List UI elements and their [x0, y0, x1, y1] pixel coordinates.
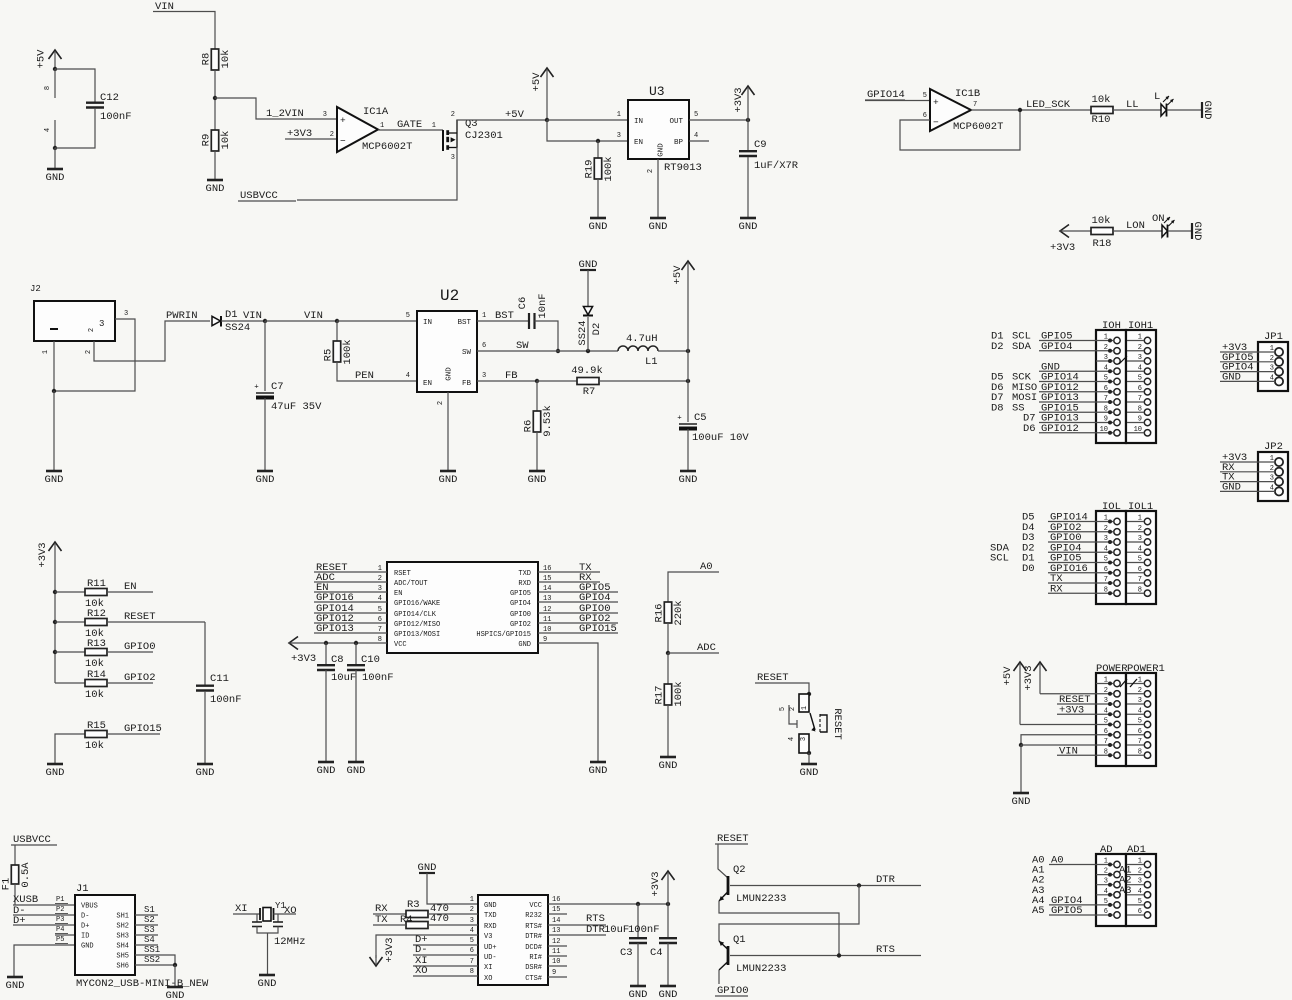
node USBVCC label	[238, 190, 296, 202]
svg-text:3: 3	[451, 154, 455, 162]
svg-text:1: 1	[1138, 515, 1142, 523]
svg-text:ON: ON	[1152, 213, 1165, 225]
node PWRIN label	[166, 310, 198, 322]
svg-text:5: 5	[1104, 556, 1108, 564]
svg-text:USBVCC: USBVCC	[13, 834, 51, 846]
svg-text:R7: R7	[583, 386, 596, 398]
svg-text:C6: C6	[517, 297, 529, 310]
svg-text:6: 6	[1104, 385, 1108, 393]
capacitor C9	[739, 120, 799, 172]
resistor R13	[85, 638, 107, 670]
node R12 junction	[53, 620, 57, 624]
svg-text:+3V3: +3V3	[291, 653, 316, 665]
svg-text:C4: C4	[650, 947, 663, 959]
svg-text:RESET: RESET	[831, 708, 843, 740]
svg-text:SH2: SH2	[116, 923, 129, 931]
svg-text:8: 8	[470, 968, 474, 976]
node RESET label	[124, 611, 156, 623]
svg-text:MCP6002T: MCP6002T	[362, 141, 412, 153]
node C10 junction	[354, 641, 358, 645]
svg-text:SH1: SH1	[116, 913, 129, 921]
node SW junction	[556, 349, 560, 353]
svg-text:1: 1	[482, 312, 486, 320]
svg-text:1: 1	[1138, 334, 1142, 342]
node XI label	[235, 903, 248, 915]
wire C4 to ground	[667, 943, 669, 986]
svg-text:5: 5	[406, 312, 410, 320]
svg-text:GPIO14: GPIO14	[867, 89, 905, 101]
JP2 pin 4	[1270, 484, 1283, 495]
node LL label	[1126, 99, 1139, 111]
svg-text:1: 1	[801, 706, 809, 710]
header AD/AD1	[1096, 844, 1156, 926]
wire J1 P4 stub	[55, 926, 75, 935]
svg-text:1uF/X7R: 1uF/X7R	[754, 160, 799, 172]
svg-text:GND: GND	[1222, 481, 1241, 493]
svg-text:SS2: SS2	[144, 955, 160, 965]
wire U2 BST to C6	[477, 312, 529, 321]
ground	[589, 762, 608, 777]
wire to ground	[53, 391, 55, 471]
wire U4 DTR to DTR	[548, 927, 606, 935]
svg-text:D8: D8	[991, 402, 1004, 414]
ground	[418, 862, 437, 874]
svg-text:GND: GND	[46, 172, 65, 184]
svg-text:10k: 10k	[1092, 215, 1111, 227]
node +5V junction	[686, 349, 690, 353]
node GPIO15 label	[124, 723, 162, 735]
node divider junction	[213, 96, 217, 100]
svg-text:8: 8	[1138, 405, 1142, 413]
svg-text:100nF: 100nF	[628, 924, 660, 936]
resistor R16	[654, 600, 686, 625]
svg-text:GND: GND	[81, 943, 94, 951]
svg-text:C12: C12	[100, 92, 119, 104]
wire module pin 14 to GPIO5	[538, 591, 618, 593]
node switch bottom junction	[807, 751, 811, 755]
svg-text:4: 4	[1138, 888, 1142, 896]
wire Q2 emitter to RTS net	[719, 901, 839, 955]
ground	[206, 180, 225, 195]
node +3V3 label	[1059, 704, 1084, 716]
svg-text:GND: GND	[206, 183, 225, 195]
wire +5V to C12	[55, 69, 95, 102]
svg-text:GND: GND	[6, 980, 25, 992]
svg-text:+3V3: +3V3	[384, 937, 396, 962]
svg-text:LON: LON	[1126, 220, 1145, 232]
ground	[579, 259, 598, 271]
svg-text:10uF: 10uF	[331, 672, 356, 684]
svg-text:GPIO4: GPIO4	[510, 600, 531, 608]
wire F1 to XUSB	[14, 884, 16, 905]
svg-text:1: 1	[617, 111, 621, 119]
wire J1 S4 stub	[135, 935, 158, 945]
svg-text:XI: XI	[235, 903, 248, 915]
svg-text:GND: GND	[1191, 222, 1203, 241]
svg-text:GND: GND	[649, 221, 668, 233]
node GND label	[1222, 371, 1241, 383]
svg-text:BST: BST	[495, 310, 514, 322]
capacitor C10	[347, 643, 394, 684]
svg-text:VIN: VIN	[304, 310, 323, 322]
wire R19 to ground	[597, 179, 599, 218]
svg-text:U2: U2	[440, 287, 459, 305]
wire R9 to ground	[214, 151, 216, 180]
svg-text:4: 4	[1138, 545, 1142, 553]
node IOH pin6 GPIO12 label	[991, 382, 1079, 394]
node FB label	[505, 370, 518, 382]
transistor Q1	[719, 934, 786, 975]
svg-text:SH5: SH5	[116, 953, 129, 961]
node XO label	[415, 965, 428, 977]
svg-text:R3: R3	[407, 899, 420, 911]
node RX label	[375, 903, 388, 915]
node IOH pin8 GPIO15 label	[991, 402, 1079, 414]
node GPIO4 label	[1222, 362, 1254, 374]
power +5V arrow	[1002, 662, 1027, 725]
wire GPIO5 to IOL pin5	[1048, 562, 1096, 564]
svg-text:4: 4	[1104, 364, 1108, 372]
wire to R14	[55, 682, 85, 684]
wire +5V to POWER pin5	[1020, 724, 1096, 726]
svg-text:GND: GND	[196, 767, 215, 779]
wire U2 GND pin	[437, 392, 448, 471]
svg-text:J2: J2	[30, 284, 41, 294]
node A3 net label	[1119, 885, 1132, 897]
node D2 junction	[586, 349, 590, 353]
node TX label	[1222, 472, 1235, 484]
ground	[589, 218, 608, 233]
svg-text:LMUN2233: LMUN2233	[736, 963, 786, 975]
regulator U2	[417, 287, 477, 392]
svg-text:TXD: TXD	[484, 912, 497, 920]
wire R3 to U4 TXD	[428, 906, 478, 914]
svg-text:GPIO14/CLK: GPIO14/CLK	[394, 611, 437, 619]
JP2 pin 3	[1270, 475, 1283, 486]
node LON label	[1126, 220, 1145, 232]
ground	[166, 987, 185, 1000]
svg-text:XO: XO	[284, 905, 297, 917]
svg-text:R4: R4	[400, 914, 413, 926]
power +5V arrow	[672, 261, 695, 351]
capacitor C3	[604, 904, 647, 959]
svg-text:L1: L1	[645, 356, 658, 368]
transistor Q3	[443, 111, 503, 162]
svg-text:GND: GND	[1012, 796, 1031, 808]
svg-text:RESET: RESET	[717, 833, 749, 845]
svg-text:A5: A5	[1032, 905, 1045, 917]
wire U3 GND pin	[647, 159, 658, 218]
power +3V3 arrow	[37, 542, 62, 683]
node C8 junction	[324, 641, 328, 645]
node J2 ground junction	[52, 389, 56, 393]
node GPIO14 label	[316, 603, 354, 615]
svg-text:12MHz: 12MHz	[274, 936, 306, 948]
wire J2 pin3 to ground bus	[54, 319, 135, 391]
svg-text:R19: R19	[584, 160, 596, 179]
svg-text:8: 8	[1138, 586, 1142, 594]
wire +3V3 to JP1 pin1	[1220, 351, 1275, 353]
svg-text:14: 14	[552, 917, 560, 925]
svg-text:AD1: AD1	[1127, 844, 1146, 856]
svg-text:C8: C8	[331, 654, 344, 666]
svg-text:P3: P3	[56, 916, 64, 924]
svg-text:3: 3	[1138, 354, 1142, 362]
USB-serial converter U4	[478, 895, 548, 985]
node GPIO16 label	[316, 592, 354, 604]
wire module pin 16 to TX	[538, 571, 600, 573]
node +5V junction	[545, 118, 549, 122]
wire C12 to ground	[55, 108, 95, 148]
wire U4 R232 stub	[548, 906, 567, 914]
wire R7 to +5V node	[599, 380, 688, 382]
wire GPIO15 to IOH pin8	[1039, 411, 1096, 413]
svg-text:IOH: IOH	[1102, 320, 1121, 332]
node GPIO0 label	[124, 641, 156, 653]
wire U4 V3 to +3V3	[376, 927, 478, 958]
svg-text:GND: GND	[518, 641, 531, 649]
svg-text:R16: R16	[654, 604, 666, 623]
svg-text:GND: GND	[659, 760, 678, 772]
wire J1 S3 stub	[135, 925, 158, 935]
node C4 junction	[666, 902, 670, 906]
svg-text:−: −	[933, 117, 939, 128]
wire GND to JP2 pin4	[1220, 490, 1275, 492]
svg-text:+3V3: +3V3	[1023, 665, 1035, 690]
power +3V3 arrow down	[370, 937, 397, 966]
svg-text:AD: AD	[1100, 844, 1113, 856]
wire R15 to GPIO15	[107, 733, 160, 735]
node DTR junction	[857, 883, 861, 887]
svg-text:S4: S4	[144, 935, 155, 945]
svg-text:TXD: TXD	[518, 570, 531, 578]
svg-text:C3: C3	[620, 947, 633, 959]
node IOH pin10 GPIO12 label	[1023, 423, 1079, 435]
wire R17 to ground	[667, 705, 669, 757]
resistor R18	[1091, 215, 1113, 250]
svg-text:SS24: SS24	[225, 322, 250, 334]
svg-text:10: 10	[1134, 426, 1142, 434]
svg-text:7: 7	[470, 958, 474, 966]
svg-text:1: 1	[1138, 677, 1142, 685]
wire DTR to Q1 emitter	[719, 886, 859, 942]
wire SW to L1	[558, 350, 618, 352]
wire Q1 collector to GPIO0	[718, 970, 720, 984]
svg-text:R6: R6	[523, 420, 535, 433]
node AD pin4 A3 label	[1032, 885, 1045, 897]
svg-text:R13: R13	[87, 638, 106, 650]
wire GPIO13 to IOH pin9	[1039, 422, 1096, 424]
svg-text:16: 16	[552, 896, 560, 904]
svg-text:6: 6	[1138, 908, 1142, 916]
wire D- to J1 P2	[13, 906, 75, 915]
svg-text:10uF: 10uF	[604, 924, 629, 936]
wire R12 to RESET	[107, 621, 205, 623]
ground	[258, 975, 277, 990]
svg-text:+: +	[933, 97, 939, 108]
wire GPIO14 to IOH pin5	[1039, 381, 1096, 383]
svg-text:R15: R15	[87, 720, 106, 732]
node D- label	[415, 944, 428, 956]
svg-text:6: 6	[1104, 908, 1108, 916]
svg-text:IN: IN	[423, 319, 432, 327]
svg-text:R14: R14	[87, 669, 106, 681]
svg-text:5: 5	[1104, 898, 1108, 906]
svg-text:2: 2	[1138, 344, 1142, 352]
node output junction	[686, 379, 690, 383]
power +5V supply arrow (IC1 pin 8)	[36, 49, 62, 69]
wire R18 to LED ON	[1113, 230, 1162, 232]
wire VIN to POWER pin8	[1057, 754, 1096, 756]
wire RESET to switch	[755, 683, 809, 694]
wire IC1 pin8 stub	[44, 69, 55, 98]
wire +5V to U3 IN	[547, 111, 628, 120]
resistor R11	[85, 578, 107, 610]
svg-text:ADC/TOUT: ADC/TOUT	[394, 580, 428, 588]
svg-text:GPIO2: GPIO2	[510, 621, 531, 629]
svg-text:D2: D2	[991, 341, 1004, 353]
JP1 pin 3	[1270, 365, 1283, 376]
node RESET label	[1059, 694, 1091, 706]
wire D- to U4	[413, 947, 478, 955]
svg-text:4: 4	[1104, 888, 1108, 896]
svg-text:1: 1	[470, 896, 474, 904]
node VIN junction	[263, 319, 267, 323]
svg-text:Q1: Q1	[733, 934, 746, 946]
JP1 pin 1	[1270, 345, 1283, 356]
svg-text:1: 1	[42, 350, 50, 354]
svg-text:UD+: UD+	[484, 944, 497, 952]
header IOH/IOH1	[1096, 320, 1156, 443]
svg-text:MYCON2_USB-MINI-B_NEW: MYCON2_USB-MINI-B_NEW	[76, 978, 209, 990]
node IOH pin7 GPIO13 label	[991, 392, 1079, 404]
wire Q3 drain to +5V	[457, 119, 547, 121]
node XUSB label	[13, 894, 38, 906]
svg-text:3: 3	[124, 310, 128, 318]
connector J2	[30, 284, 128, 354]
node GPIO13 label	[316, 623, 354, 635]
JP2 pin 2	[1270, 465, 1283, 476]
node PEN label	[355, 370, 374, 382]
ground	[1201, 101, 1213, 120]
wire +5V to U3 EN	[547, 120, 628, 141]
wire GPIO4 to JP1 pin3	[1220, 371, 1275, 373]
svg-text:ID: ID	[81, 933, 89, 941]
svg-text:5: 5	[1138, 375, 1142, 383]
svg-text:HSPICS/GPIO15: HSPICS/GPIO15	[476, 631, 531, 639]
node TX label	[579, 562, 592, 574]
wire C11 to ground	[204, 691, 206, 764]
wire POWER pin6 to ground	[1021, 735, 1096, 745]
ground	[629, 986, 648, 1000]
node IC1 supply junction	[53, 67, 57, 71]
wire IC1B out	[971, 109, 1091, 111]
svg-text:2: 2	[1104, 344, 1108, 352]
wire Q1 base to RTS	[730, 955, 921, 957]
svg-text:LED_SCK: LED_SCK	[1026, 99, 1071, 111]
transistor Q2	[719, 864, 786, 905]
svg-text:P2: P2	[56, 906, 64, 914]
power +3V3 arrow	[733, 86, 755, 120]
ground	[45, 471, 64, 486]
resistor R8	[201, 49, 233, 70]
node BST label	[495, 310, 514, 322]
node RESET label	[757, 672, 789, 684]
ground	[679, 471, 698, 486]
node IOL pin1 GPIO14 label	[1022, 512, 1088, 524]
svg-text:9: 9	[1138, 416, 1142, 424]
header IOL/IOL1	[1096, 501, 1156, 604]
svg-text:Q2: Q2	[733, 864, 746, 876]
wire GPIO12 to IOH pin10	[1039, 432, 1096, 434]
wire RESET to module pin 1	[314, 571, 387, 573]
svg-text:13: 13	[552, 927, 560, 935]
svg-text:L: L	[1154, 91, 1160, 103]
svg-text:BP: BP	[674, 139, 684, 147]
wire RX to R3	[373, 913, 406, 915]
svg-text:2: 2	[789, 707, 797, 711]
node IOH pin2 GPIO4 label	[991, 341, 1073, 353]
node D- label	[13, 905, 26, 917]
ground	[800, 764, 819, 779]
svg-text:5: 5	[779, 707, 787, 711]
node GPIO12 label	[316, 613, 354, 625]
svg-text:+3V3: +3V3	[733, 87, 745, 112]
svg-text:10k: 10k	[85, 689, 104, 701]
resistor R17	[654, 653, 686, 707]
svg-text:2: 2	[470, 906, 474, 914]
ground	[1012, 793, 1031, 808]
svg-text:A3: A3	[1119, 885, 1132, 897]
node R13 junction	[53, 650, 57, 654]
svg-text:3: 3	[470, 917, 474, 925]
svg-text:470: 470	[430, 913, 449, 925]
svg-text:D6: D6	[1023, 423, 1036, 435]
svg-text:S1: S1	[144, 905, 155, 915]
svg-text:+: +	[677, 415, 682, 423]
svg-text:+5V: +5V	[531, 72, 543, 92]
node VIN label	[153, 1, 176, 13]
wire U4 DCD stub	[548, 938, 567, 946]
node GATE label	[397, 119, 436, 131]
wire GPIO12 to IOH pin6	[1039, 391, 1096, 393]
wire divider to IC1A +input	[215, 98, 337, 119]
wire GPIO13 to module pin 7	[314, 632, 387, 634]
wire R4 to U4 RXD	[428, 917, 478, 925]
resistor R15	[85, 720, 107, 752]
svg-text:S3: S3	[144, 925, 155, 935]
svg-text:P5: P5	[56, 936, 64, 944]
svg-text:IOL1: IOL1	[1128, 501, 1153, 513]
svg-text:RTS#: RTS#	[525, 923, 542, 931]
svg-text:6: 6	[1138, 566, 1142, 574]
node IOL pin5 GPIO5 label	[990, 553, 1082, 565]
node USBVCC label	[11, 834, 57, 846]
resistor R4	[400, 913, 449, 929]
svg-text:3: 3	[1138, 878, 1142, 886]
svg-text:2: 2	[1138, 868, 1142, 876]
wire RX to JP2 pin2	[1220, 471, 1275, 473]
svg-text:5: 5	[1104, 375, 1108, 383]
wire VIN to R8	[176, 12, 215, 50]
svg-text:6: 6	[1104, 566, 1108, 574]
resistor R10	[1091, 94, 1113, 126]
svg-text:RESET: RESET	[124, 611, 156, 623]
svg-text:S2: S2	[144, 915, 155, 925]
ground	[528, 471, 547, 486]
svg-text:DTR: DTR	[876, 874, 896, 886]
wire GPIO2 to IOL pin2	[1048, 531, 1096, 533]
